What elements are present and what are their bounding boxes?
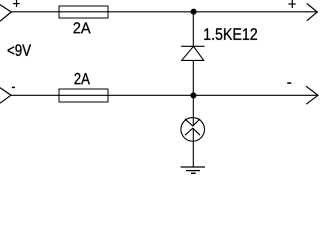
port arrow right top (+ line output) [307, 4, 318, 21]
surge arrester / spark gap (circle with opposing arrows) [181, 118, 205, 142]
wire bottom row, fuse to junction [108, 94, 193, 96]
label + (top right) [288, 0, 295, 8]
label + (top left) [13, 0, 20, 7]
junction node bottom [191, 93, 197, 99]
port arrow left bottom (- line input) [0, 88, 11, 104]
wire top row, junction to right port [193, 11, 317, 13]
wire bottom row, junction to right port [193, 94, 318, 96]
fuse F2 2A (bottom) [59, 89, 108, 102]
label - (bottom left) [12, 87, 15, 88]
wire vertical, bottom junction into arrester [192, 95, 194, 126]
port arrow right bottom (- line output) [306, 86, 318, 104]
fuse F1 2A (top) [59, 6, 108, 18]
wire bottom row, arrow to fuse [11, 94, 60, 96]
wire top row, arrow to fuse [11, 11, 59, 13]
junction node top [191, 9, 197, 15]
port arrow left top (+ line input) [0, 5, 11, 22]
label <9V [8, 44, 31, 56]
wire top row, fuse to junction [108, 11, 193, 13]
value label 2A (top fuse) [74, 22, 91, 33]
label - (bottom right) [287, 83, 291, 84]
value label 1.5KE12 [204, 28, 257, 40]
value label 2A (bottom fuse) [74, 73, 89, 84]
wire vertical, arrester to ground [192, 128, 194, 167]
ground symbol [181, 167, 205, 173]
wire vertical, top junction to diode cathode [192, 12, 194, 47]
diode D1 TVS (cathode bar + triangle, pointing up) [181, 46, 205, 60]
wire vertical, diode anode to bottom junction [192, 60, 194, 95]
